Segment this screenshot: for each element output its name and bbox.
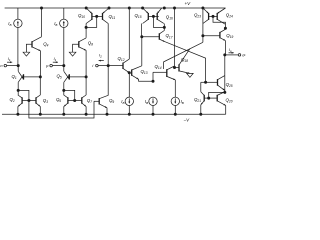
- Q11 label: [109, 14, 116, 20]
- svg-text:IB: IB: [145, 99, 148, 105]
- svg-text:o: o: [242, 54, 244, 58]
- Q3 label: [43, 98, 48, 104]
- wire output down: [224, 55, 226, 76]
- wire i input: [98, 65, 108, 67]
- transistor Q23: [203, 8, 209, 24]
- Q21 label: [194, 97, 201, 103]
- wire Q9 base: [94, 100, 99, 102]
- svg-text:Q8: Q8: [88, 40, 93, 46]
- svg-text:Q1: Q1: [12, 74, 17, 80]
- svg-text:Q10: Q10: [78, 13, 85, 19]
- Q12 label: [118, 56, 125, 62]
- current arrow I2: [99, 60, 104, 62]
- wire Q8 base: [73, 44, 79, 52]
- wire bases diode loop 2: [213, 16, 225, 28]
- Q5 label: [57, 74, 62, 80]
- Q16m label: [166, 14, 173, 20]
- node Q8e/Q7c/Q5b: [85, 75, 88, 78]
- wire I_C2 to bottom rail: [152, 106, 154, 115]
- wire Q7 emitter: [85, 107, 87, 115]
- Q17 label: [166, 33, 173, 39]
- junction Q10e rail: [85, 7, 88, 10]
- wire Q21 base extension: [201, 81, 206, 83]
- current source I_B2: [60, 19, 68, 27]
- node i junction: [107, 64, 110, 67]
- transistor Q12: [123, 59, 129, 73]
- wire Q19 emitter to output: [224, 41, 226, 55]
- wire output: [225, 54, 238, 56]
- svg-text:Q3: Q3: [43, 98, 48, 104]
- junction Q15e rail: [141, 7, 144, 10]
- current source label I_B2: [54, 21, 57, 27]
- Q13 label: [141, 69, 148, 75]
- svg-text:IB: IB: [54, 21, 57, 27]
- node Q1 collector: [17, 89, 20, 92]
- wire Q13 emitter: [139, 79, 153, 81]
- transistor Q20: [217, 92, 226, 105]
- wire Q13c up to mirror: [141, 24, 143, 37]
- terminal i label: [92, 63, 93, 68]
- wire bases diode loop: [153, 16, 164, 27]
- node Q19 base tap: [201, 34, 204, 37]
- transistor Q1: [18, 71, 23, 82]
- wire I_B1 down: [17, 28, 19, 66]
- svg-text:Q23: Q23: [194, 13, 201, 19]
- svg-text:Q17: Q17: [166, 33, 173, 39]
- current source I_B1: [14, 19, 22, 27]
- current label I1: [8, 57, 11, 62]
- current source I_C3: [171, 97, 179, 105]
- current label Io: [229, 48, 232, 53]
- wire source2 up: [152, 72, 154, 81]
- wire Q21-Q20 bases: [204, 97, 217, 99]
- wire Q14 emitter down: [174, 80, 176, 97]
- node Q16c diode: [163, 26, 166, 29]
- wire Q6-Q7 bases: [68, 100, 82, 102]
- junction Q7e rail: [85, 113, 88, 116]
- junction Q12c rail: [128, 7, 131, 10]
- wire Q4 base: [26, 44, 32, 52]
- current label I2: [99, 54, 102, 59]
- wire Q3 emitter: [39, 107, 41, 115]
- wire node down to source1: [128, 73, 130, 97]
- wire Q10-Q11 bases: [92, 15, 103, 17]
- transistor Q5: [64, 71, 70, 82]
- terminal p label: [45, 63, 49, 68]
- bottom rail: [2, 113, 226, 115]
- transistor Q21: [201, 92, 204, 105]
- Q2 label: [10, 97, 15, 103]
- junction I_C2 rail: [152, 113, 155, 116]
- svg-text:Q16: Q16: [166, 14, 173, 20]
- wire rail to current source I_B2: [63, 8, 65, 19]
- svg-text:I2: I2: [99, 54, 102, 59]
- wire down to Q6 collector: [63, 90, 65, 95]
- wire i node to Q12 base: [108, 65, 123, 67]
- transistor Q18: [179, 49, 190, 74]
- ground Q4 base: [23, 52, 30, 56]
- wire Q13 collector up: [141, 37, 143, 66]
- node A vert Q25 base: [204, 81, 207, 84]
- current source label I_B1: [8, 21, 11, 27]
- wire Q2 emitter: [17, 107, 19, 115]
- svg-text:Q2: Q2: [10, 97, 15, 103]
- terminal p: [50, 64, 53, 67]
- wire V1 Q23 collector down: [202, 8, 204, 42]
- svg-text:Q11: Q11: [109, 14, 116, 20]
- wire diode to Q17 collector: [163, 27, 165, 30]
- junction Q21e rail: [199, 113, 202, 116]
- transistor Q2: [18, 95, 22, 107]
- wire Q5c to mirror bases: [64, 90, 75, 100]
- wire I_C3 to bottom rail: [174, 106, 176, 115]
- svg-text:I1: I1: [54, 57, 57, 62]
- transistor Q16m: [157, 8, 164, 23]
- node mirror bases top2: [152, 15, 155, 18]
- wire Q1 collector down: [17, 82, 19, 90]
- current label I1b: [54, 57, 57, 62]
- wire Q9 emitter: [106, 108, 108, 115]
- junction Q4c rail: [40, 7, 43, 10]
- svg-text:Q19: Q19: [226, 33, 233, 39]
- svg-text:Q4: Q4: [43, 41, 48, 47]
- wire node to Q4 emitter: [40, 51, 42, 77]
- Q14 label: [155, 64, 162, 70]
- node Q12e Q13b: [128, 71, 131, 74]
- Q23 label: [194, 13, 201, 19]
- diagonal B crossover: [164, 42, 203, 69]
- Q24 label: [226, 13, 233, 19]
- svg-text:Q13: Q13: [141, 69, 148, 75]
- node n junction: [17, 64, 20, 67]
- wire bases to bias node: [209, 92, 225, 98]
- junction Q16e rail: [163, 7, 166, 10]
- transistor Q24: [217, 8, 225, 24]
- node Q21/20 bases: [207, 97, 210, 100]
- Q1 label: [12, 74, 17, 80]
- svg-text:Q15: Q15: [135, 13, 142, 19]
- wire Q16 collector: [163, 24, 165, 28]
- wire Q19 base: [203, 35, 220, 37]
- wire Q20 emitter to rail end: [225, 105, 227, 114]
- wire Q4 collector to rail: [41, 8, 43, 37]
- node Q23/24 bases: [212, 15, 215, 18]
- wire Q12 collector to rail: [128, 8, 130, 59]
- -V label: [184, 118, 191, 123]
- svg-text:Q18: Q18: [181, 57, 188, 63]
- node mirror bases 1: [27, 99, 30, 102]
- transistor Q19: [220, 29, 226, 40]
- Q19 label: [226, 33, 233, 39]
- wire Q8 collector up: [85, 27, 87, 38]
- wire p input: [53, 65, 64, 67]
- wire Q19 collector stub: [224, 28, 226, 29]
- svg-text:I1: I1: [8, 57, 11, 62]
- wire Q23-Q24 bases: [209, 15, 218, 17]
- wire Q21 emitter: [200, 105, 202, 115]
- wire Q25 emitter to node: [224, 90, 226, 92]
- wire Q10 collector: [85, 24, 87, 28]
- Q20 label: [226, 98, 233, 104]
- svg-text:+V: +V: [185, 1, 192, 6]
- current source label I_C2: [145, 99, 148, 105]
- wire Q11 collector down: [107, 24, 109, 66]
- current source label I_C3: [181, 99, 184, 105]
- wire Q15-Q16 bases: [148, 15, 159, 17]
- wire Q7 collector up: [85, 77, 87, 95]
- wire Q1 base: [24, 76, 41, 78]
- transistor Q25: [218, 76, 225, 91]
- junction I_C3 rail: [174, 113, 177, 116]
- ground Q18 emitter: [187, 73, 194, 77]
- node output: [223, 53, 226, 56]
- Q10 label: [78, 13, 85, 19]
- wire Q13c to Q17 base: [142, 36, 160, 38]
- Q9 label: [109, 98, 114, 104]
- current arrow Io: [229, 52, 234, 54]
- wire Q3 collector up: [39, 77, 41, 95]
- current source label I_C1: [121, 99, 124, 105]
- ground Q8 base: [69, 52, 76, 56]
- wire n to Q1 emitter: [17, 66, 19, 72]
- svg-text:IB: IB: [8, 21, 11, 27]
- terminal i: [96, 64, 99, 67]
- junction Q3e rail: [39, 113, 42, 116]
- current arrow I1: [7, 61, 12, 63]
- transistor Q13: [132, 66, 142, 80]
- terminal n label: [0, 63, 2, 68]
- transistor Q17: [159, 31, 165, 42]
- svg-text:Q25: Q25: [226, 82, 233, 88]
- bias bus: [29, 101, 94, 119]
- top +V rail: [5, 7, 226, 9]
- svg-text:Q5: Q5: [57, 74, 62, 80]
- transistor Q14: [167, 66, 176, 80]
- wire i node down: [107, 66, 109, 96]
- node output stage bias: [223, 91, 226, 94]
- terminal n: [4, 64, 7, 67]
- Q18 label: [181, 57, 188, 63]
- wire output vert lower: [224, 76, 226, 93]
- junction Q9e rail: [106, 113, 109, 116]
- wire Q21 collector up: [200, 82, 202, 92]
- wire rail to current source I_B1: [17, 8, 19, 19]
- svg-text:IB: IB: [121, 99, 124, 105]
- svg-text:Q21: Q21: [194, 97, 201, 103]
- svg-text:Q24: Q24: [226, 13, 233, 19]
- transistor Q6: [64, 95, 68, 107]
- output label: [242, 54, 245, 58]
- svg-text:IB: IB: [181, 99, 184, 105]
- wire I_C1 to bottom rail: [128, 106, 130, 115]
- node Q24c diode: [224, 27, 227, 30]
- Q8 label: [88, 40, 93, 46]
- node Q4e/Q3c/Q1b: [39, 75, 42, 78]
- wire Q2-Q3 bases: [22, 100, 36, 102]
- Q6 label: [56, 97, 61, 103]
- node Q18 base tap: [173, 66, 176, 69]
- transistor Q10: [86, 8, 92, 24]
- wire n input: [7, 65, 19, 67]
- current arrow I1b: [53, 61, 58, 63]
- junction I_C1 rail: [128, 113, 131, 116]
- junction Q14c rail: [173, 7, 176, 10]
- junction Q23e rail: [201, 7, 204, 10]
- svg-text:Q20: Q20: [226, 98, 233, 104]
- svg-text:Q14: Q14: [155, 64, 162, 70]
- node Q10c diode: [85, 26, 88, 29]
- transistor Q9: [99, 95, 108, 108]
- wire Q1c to mirror bases: [18, 90, 29, 100]
- transistor Q8: [79, 38, 86, 50]
- node mirror bases 2: [73, 99, 76, 102]
- svg-text:Q9: Q9: [109, 98, 114, 104]
- wire Q14 collector to rail: [174, 8, 176, 66]
- wire Q18 base: [175, 67, 180, 69]
- svg-text:Io: Io: [229, 48, 232, 53]
- svg-text:n: n: [0, 63, 2, 68]
- junction Q11e rail: [108, 7, 111, 10]
- svg-text:p: p: [45, 63, 49, 68]
- wire down to Q2 collector: [17, 90, 19, 95]
- wire Q6 emitter: [63, 107, 65, 115]
- diagonal A to output stage: [165, 42, 206, 83]
- transistor Q4: [32, 37, 42, 51]
- svg-text:Q7: Q7: [87, 98, 92, 104]
- wire Q5 collector down: [63, 82, 65, 90]
- wire Q10c to bases: [86, 16, 97, 27]
- wire I_B2 down: [63, 28, 65, 66]
- current source I_C1: [125, 97, 133, 105]
- wire node to Q8 emitter: [85, 50, 87, 77]
- junction Q6e rail: [62, 113, 65, 116]
- svg-text:Q6: Q6: [56, 97, 61, 103]
- current source I_C2: [149, 97, 157, 105]
- +V label: [185, 1, 192, 6]
- svg-text:i: i: [92, 63, 93, 68]
- svg-text:−V: −V: [184, 118, 191, 123]
- output terminal: [238, 54, 241, 57]
- node mirror bases top: [95, 15, 98, 18]
- wire Q14 base: [153, 71, 167, 73]
- transistor Q11: [103, 8, 110, 24]
- wire Q5 base: [69, 76, 86, 78]
- node Q13e source2: [152, 80, 155, 83]
- node Q5 collector: [62, 89, 65, 92]
- svg-text:Q12: Q12: [118, 56, 125, 62]
- transistor Q15m: [143, 8, 149, 24]
- node p junction: [62, 64, 65, 67]
- transistor Q7: [82, 95, 86, 107]
- Q4 label: [43, 41, 48, 47]
- junction Q2e rail: [16, 113, 19, 116]
- wire Q25 base: [206, 81, 218, 83]
- transistor Q3: [36, 95, 40, 107]
- wire p to Q5 emitter: [63, 66, 65, 72]
- Q25 label: [226, 82, 233, 88]
- Q15m label: [135, 13, 142, 19]
- Q7 label: [87, 98, 92, 104]
- node Q13c: [140, 35, 143, 38]
